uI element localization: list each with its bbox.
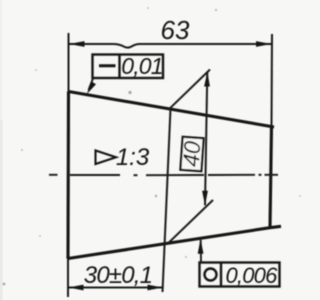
dimension line 40 <box>205 72 207 205</box>
arrowhead leader roundness <box>198 239 204 254</box>
framed dimension 40 <box>177 137 205 172</box>
leader straightness <box>89 79 94 91</box>
scan edge shading <box>0 120 3 300</box>
extension line right <box>271 34 274 126</box>
center line <box>49 174 278 176</box>
svg-text:40: 40 <box>178 140 206 168</box>
straightness symbol <box>99 64 116 67</box>
arrowhead 30 left <box>68 285 83 291</box>
svg-text:30±0,1: 30±0,1 <box>84 262 152 289</box>
transfer diagonal top <box>170 70 211 109</box>
svg-text:0,006: 0,006 <box>225 263 278 288</box>
feature control frame straightness <box>93 55 164 79</box>
arrowhead 63 right <box>256 41 271 47</box>
dimension line 30 <box>68 287 163 289</box>
cone outline <box>68 92 281 259</box>
svg-text:1:3: 1:3 <box>116 144 150 171</box>
extension line left <box>67 33 70 297</box>
leader roundness <box>200 240 202 263</box>
arrowhead 63 left <box>69 41 85 47</box>
transfer diagonal bottom <box>168 200 213 243</box>
dimension line 63 <box>69 44 271 48</box>
feature control frame roundness <box>200 263 280 287</box>
arrowhead 40 up <box>204 72 210 87</box>
arrowhead 40 down <box>202 191 208 206</box>
roundness symbol <box>205 269 217 281</box>
taper symbol triangle <box>96 151 117 165</box>
svg-text:63: 63 <box>161 15 190 45</box>
arrowhead 30 right <box>148 285 163 291</box>
arrowhead leader straightness <box>87 82 96 95</box>
svg-text:0,01: 0,01 <box>121 53 163 79</box>
section line <box>163 109 171 293</box>
